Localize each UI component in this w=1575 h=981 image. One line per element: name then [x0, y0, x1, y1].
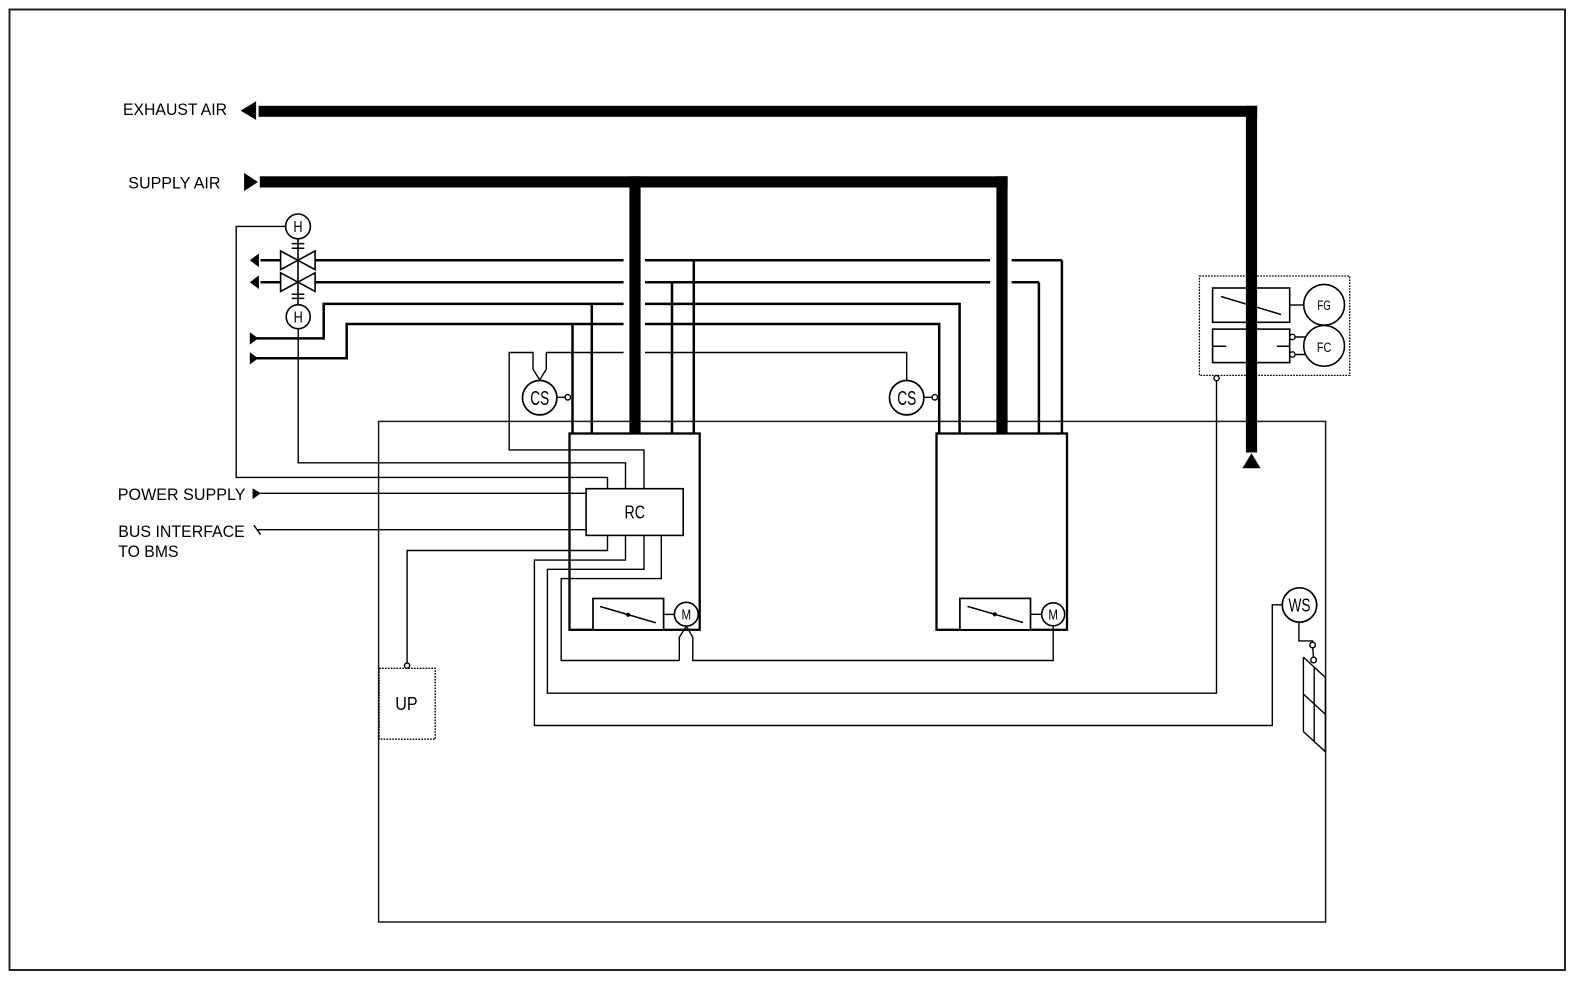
switch circle 1 [1310, 642, 1316, 648]
wire H top to RC [236, 226, 607, 488]
svg-text:RC: RC [624, 503, 645, 523]
supply duct branch 1 [629, 176, 640, 433]
svg-text:SUPPLY AIR: SUPPLY AIR [128, 174, 220, 193]
pipe L1 exhaust water line [261, 260, 1062, 433]
svg-text:M: M [682, 607, 692, 624]
exhaust air duct horizontal [259, 106, 1258, 117]
sensor CS2 [890, 381, 924, 415]
wire switch link [1312, 648, 1315, 657]
pipe branch D to unit 1 [693, 260, 696, 433]
power supply arrowhead [253, 488, 261, 499]
sensor WS [1282, 588, 1316, 622]
exhaust air duct vertical [1246, 106, 1257, 453]
panel stub circles [1290, 334, 1295, 339]
wire CS1 funnel right diagonal [540, 369, 547, 380]
svg-text:EXHAUST AIR: EXHAUST AIR [123, 100, 227, 119]
pipe L4 arrowhead [250, 352, 258, 364]
sensor CS1 stub wire [557, 396, 565, 398]
svg-text:CS: CS [530, 388, 549, 410]
pipe L1 arrowhead [250, 254, 259, 268]
valve stem ticks upper [292, 244, 305, 249]
UP stub circle [405, 663, 410, 668]
wire power supply to RC [260, 492, 586, 494]
svg-text:FG: FG [1317, 298, 1330, 313]
wire M1 legs and link to M2 [679, 626, 1053, 661]
bus interface slash [254, 525, 261, 534]
svg-text:WS: WS [1289, 595, 1311, 615]
svg-text:UP: UP [395, 694, 417, 714]
sensor CS1 stub circle [565, 395, 570, 400]
pipe L2 arrowhead [250, 275, 259, 289]
pipe branch C to unit 1 [671, 282, 674, 433]
svg-text:FC: FC [1317, 340, 1332, 355]
wire RC to FG FC panel [547, 381, 1216, 693]
svg-text:CS: CS [897, 388, 916, 410]
wire WS to coil switch [1299, 622, 1313, 642]
wire H bottom to RC [298, 329, 625, 489]
heating coil [1303, 657, 1325, 752]
valve V1 [281, 251, 298, 270]
wires stubs to FC [1295, 337, 1306, 355]
hand control H bottom [286, 305, 310, 329]
svg-text:POWER SUPPLY: POWER SUPPLY [118, 486, 246, 504]
gauge FC [1304, 326, 1345, 367]
valve V2 [281, 273, 298, 292]
wire CS1 to CS2 segment a [546, 353, 623, 370]
svg-text:M: M [1048, 607, 1058, 624]
wire RC to WS [534, 535, 1282, 725]
wire RC to CS1 funnel [509, 353, 644, 489]
switch circle 2 [1311, 657, 1317, 663]
sensor CS1 [523, 381, 557, 415]
unit box 2 [937, 434, 1068, 630]
sensor CS2 stub circle [932, 395, 937, 400]
UP box [379, 668, 435, 739]
pipe L3 arrowhead [250, 332, 258, 344]
controller RC box [586, 489, 683, 536]
motor M1 [674, 602, 698, 626]
supply air duct arrowhead [244, 173, 258, 191]
pipe branch A to unit 1 [571, 324, 574, 434]
wire rect1 to FG [1290, 304, 1304, 306]
sensor CS2 stub wire [924, 396, 932, 398]
pipe L3 supply water line [257, 304, 960, 434]
svg-text:BUS INTERFACE: BUS INTERFACE [118, 523, 245, 541]
pipe L4 supply water line [257, 324, 940, 434]
svg-text:H: H [293, 219, 302, 236]
unit box 1 [570, 434, 700, 630]
wire bus interface to RC [257, 529, 586, 531]
motor M2 [1042, 603, 1065, 626]
valve stem ticks lower [292, 294, 305, 298]
wire RC to UP [407, 535, 607, 663]
pipe L2 exhaust water line [261, 282, 1039, 433]
panel damper rect [1213, 288, 1290, 322]
svg-text:H: H [294, 309, 303, 326]
wire actuator2 to M2 [1031, 613, 1042, 615]
big enclosure box [379, 421, 1326, 922]
supply air duct horizontal [260, 176, 1008, 187]
valve stem [297, 239, 299, 305]
hand control H top [286, 214, 311, 239]
panel bottom stub circle [1214, 376, 1219, 381]
gauge FG [1304, 284, 1345, 325]
wire CS1 to CS2 segment b [645, 353, 907, 381]
wire actuator1 to M1 [664, 613, 675, 615]
pipe branch B to unit 1 [591, 304, 594, 434]
supply duct branch 2 [996, 176, 1007, 433]
wire RC to damper motor M1 [561, 535, 679, 660]
damper actuator 1 [593, 599, 664, 630]
svg-text:TO BMS: TO BMS [118, 543, 178, 561]
panel lower rect [1213, 329, 1290, 363]
exhaust duct up arrow [1242, 453, 1260, 468]
FG FC panel [1199, 276, 1349, 375]
exhaust air duct arrowhead [241, 101, 257, 120]
damper actuator 2 [960, 598, 1031, 629]
